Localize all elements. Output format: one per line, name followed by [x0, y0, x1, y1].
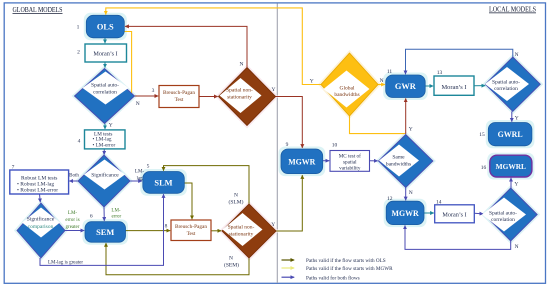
svg-text:Significance: Significance	[91, 172, 119, 179]
svg-text:5: 5	[147, 163, 150, 169]
svg-text:• LM-error: • LM-error	[93, 142, 116, 148]
svg-text:Paths valid for both flows: Paths valid for both flows	[306, 274, 360, 281]
svg-text:Spatial auto-: Spatial auto-	[91, 83, 119, 89]
svg-text:correlation: correlation	[491, 217, 515, 223]
svg-text:SEM: SEM	[96, 228, 114, 237]
svg-text:LM-: LM-	[68, 211, 78, 216]
svg-text:4: 4	[78, 139, 81, 145]
svg-text:1: 1	[77, 25, 80, 31]
svg-text:• Robust LM-error: • Robust LM-error	[17, 188, 58, 194]
svg-text:comparison: comparison	[28, 224, 54, 230]
svg-text:Breusch-Pagan: Breusch-Pagan	[175, 224, 207, 230]
svg-text:GWRL: GWRL	[498, 130, 523, 139]
svg-text:Spatial auto-: Spatial auto-	[489, 210, 517, 216]
svg-text:SLM: SLM	[154, 179, 172, 188]
svg-text:Y: Y	[271, 222, 275, 228]
svg-text:9: 9	[286, 142, 289, 148]
svg-text:error: error	[111, 215, 121, 220]
svg-text:Both: Both	[69, 173, 79, 178]
svg-text:correlation: correlation	[93, 90, 117, 96]
svg-text:stationarity: stationarity	[229, 232, 254, 238]
svg-text:Significance: Significance	[27, 216, 55, 223]
svg-text:Y: Y	[109, 123, 113, 129]
svg-text:10: 10	[332, 142, 338, 148]
svg-text:MC test of: MC test of	[339, 152, 361, 159]
svg-text:(SEM): (SEM)	[224, 262, 239, 269]
svg-text:Same: Same	[392, 155, 405, 161]
svg-text:LM-: LM-	[111, 209, 121, 214]
svg-text:MGWR: MGWR	[392, 209, 419, 218]
svg-text:Global: Global	[340, 85, 355, 91]
svg-text:N: N	[515, 52, 519, 58]
svg-text:lag: lag	[136, 176, 143, 181]
svg-text:GLOBAL MODELS: GLOBAL MODELS	[13, 6, 63, 14]
svg-text:Y: Y	[515, 116, 519, 122]
svg-text:Moran’s I: Moran’s I	[93, 51, 117, 58]
svg-text:MGWRL: MGWRL	[496, 162, 526, 171]
svg-text:• Robust LM-lag: • Robust LM-lag	[17, 181, 54, 187]
svg-text:stationarity: stationarity	[227, 94, 252, 100]
svg-text:Spatial auto-: Spatial auto-	[492, 79, 520, 85]
svg-text:error is: error is	[65, 218, 79, 223]
svg-text:Test: Test	[187, 231, 196, 237]
svg-text:Moran’s I: Moran’s I	[442, 211, 466, 218]
svg-text:Y: Y	[272, 87, 276, 93]
svg-text:OLS: OLS	[97, 22, 114, 31]
svg-text:Breusch-Pagan: Breusch-Pagan	[163, 90, 195, 96]
svg-text:14: 14	[436, 199, 442, 205]
svg-text:Y: Y	[409, 127, 413, 133]
svg-text:GWR: GWR	[395, 82, 417, 91]
svg-text:15: 15	[479, 132, 485, 138]
svg-text:correlation: correlation	[494, 86, 518, 92]
svg-text:bandwidths: bandwidths	[334, 92, 359, 98]
svg-text:N: N	[136, 101, 140, 107]
svg-text:Paths valid if the flow starts: Paths valid if the flow starts with OLS	[306, 257, 386, 264]
svg-text:N: N	[409, 190, 413, 196]
svg-text:Paths valid if the flow starts: Paths valid if the flow starts with MGWR	[306, 265, 393, 272]
svg-text:13: 13	[437, 70, 443, 76]
svg-text:bandwidths: bandwidths	[386, 162, 411, 168]
svg-text:LOCAL MODELS: LOCAL MODELS	[489, 6, 536, 14]
svg-text:3: 3	[152, 88, 155, 94]
svg-text:2: 2	[77, 50, 80, 56]
svg-text:6: 6	[90, 214, 93, 220]
svg-text:7: 7	[12, 165, 15, 171]
svg-text:Moran’s I: Moran’s I	[441, 84, 466, 91]
svg-text:N: N	[234, 193, 238, 199]
svg-text:12: 12	[387, 196, 393, 202]
svg-text:MGWR: MGWR	[288, 157, 315, 166]
svg-text:Y: Y	[514, 182, 518, 188]
svg-text:Spatial non-: Spatial non-	[228, 225, 255, 231]
svg-text:N: N	[380, 78, 384, 84]
svg-text:Spatial non-: Spatial non-	[226, 88, 253, 94]
svg-text:LM-lag is greater: LM-lag is greater	[48, 261, 83, 266]
svg-text:11: 11	[387, 69, 393, 75]
svg-text:N: N	[229, 256, 233, 262]
svg-text:LM-: LM-	[135, 170, 145, 175]
svg-text:Y: Y	[310, 79, 314, 85]
svg-text:16: 16	[481, 165, 487, 171]
svg-text:greater: greater	[66, 225, 80, 230]
svg-text:8: 8	[165, 224, 168, 230]
svg-text:spatial: spatial	[343, 159, 357, 165]
svg-text:Test: Test	[175, 97, 184, 103]
svg-text:N: N	[240, 62, 244, 68]
svg-text:N: N	[515, 244, 519, 250]
svg-text:(SLM): (SLM)	[229, 198, 244, 205]
svg-text:variability: variability	[339, 166, 361, 172]
